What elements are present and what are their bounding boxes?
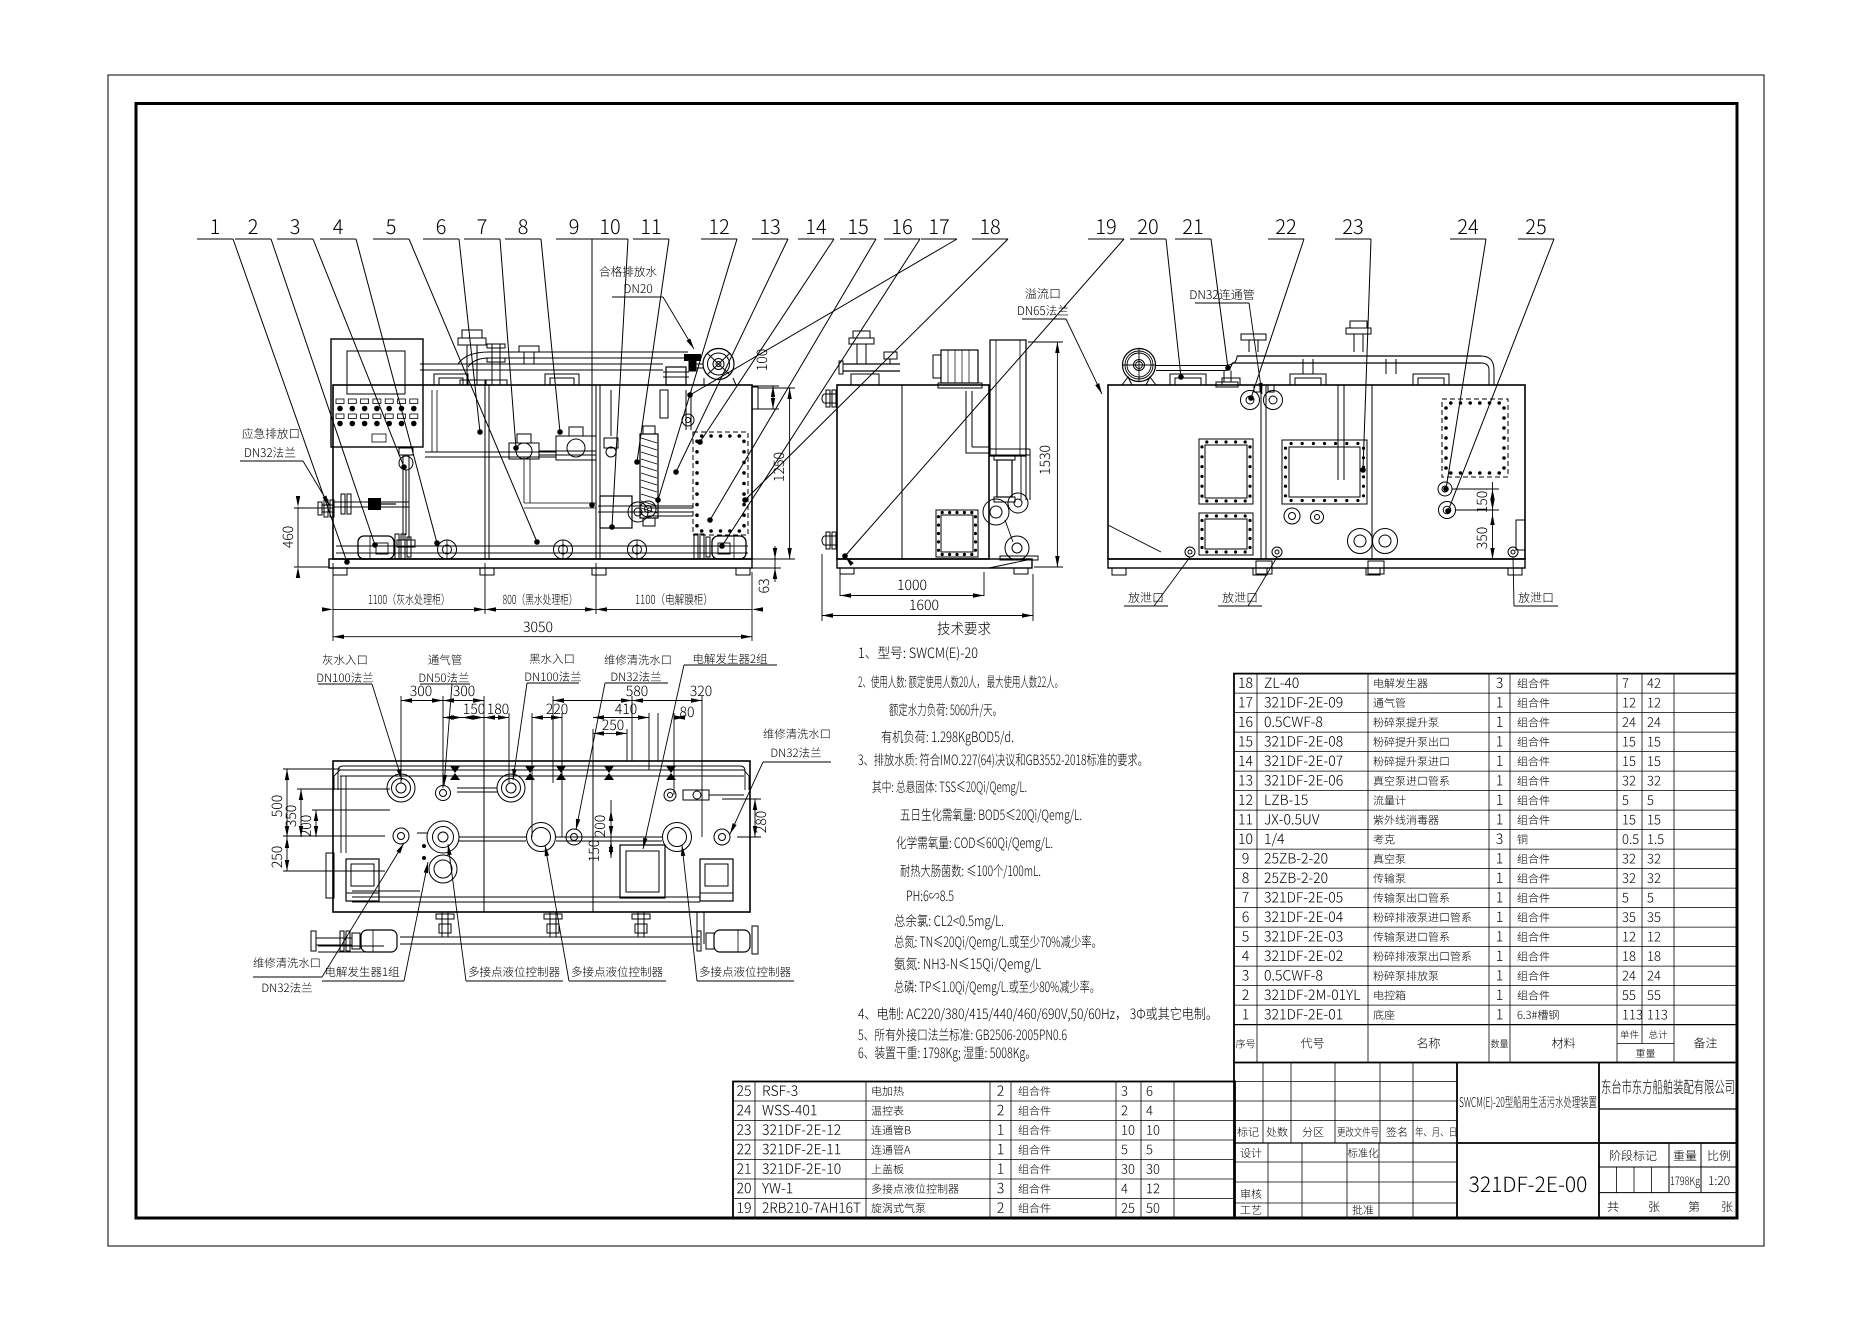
JX UV filter	[997, 460, 1012, 497]
rear top piping	[1156, 365, 1225, 367]
plan flanges row1	[387, 774, 415, 802]
plan labels bottom	[254, 957, 320, 967]
mid horizontal pipe left	[425, 451, 556, 453]
dosing pump mid-right	[600, 496, 632, 528]
mid connecting pipes plan	[417, 832, 427, 834]
misc fittings front	[604, 438, 618, 448]
top wall flanges pair	[1241, 391, 1260, 410]
manhole rear 3	[1282, 440, 1367, 504]
dim 150/350 rear	[1492, 482, 1494, 559]
mid cabinet drop pipe	[523, 457, 525, 503]
callout 17	[930, 219, 949, 234]
label DN32 connecting pipe	[1191, 289, 1254, 300]
rear small circles	[1284, 508, 1300, 524]
plan left pump	[346, 859, 379, 901]
base frame	[329, 559, 752, 568]
callout 19	[1097, 219, 1115, 234]
dim 1530	[1056, 342, 1058, 567]
title block	[1233, 1063, 1235, 1219]
rear pedestals	[1170, 374, 1206, 385]
control panel	[331, 339, 423, 447]
label: emergency outlet DN32	[242, 428, 298, 439]
tank body rear	[1108, 385, 1525, 559]
callout 12	[710, 219, 729, 234]
internal discharge pipe	[965, 391, 967, 447]
plan solid valves on pipe	[450, 766, 460, 780]
right fittings plan	[683, 790, 709, 800]
external piping right	[989, 448, 1030, 450]
dim 1000	[839, 572, 841, 596]
level gauge column	[402, 455, 404, 540]
label: qualified discharge DN20	[600, 266, 657, 277]
plan right pump	[700, 859, 733, 901]
valve cluster grey-water	[509, 443, 539, 459]
callout 3	[290, 219, 299, 234]
callout 6	[437, 219, 446, 234]
callout 14	[807, 219, 826, 234]
mid horizontal pipe right cabinet	[598, 505, 693, 507]
top pipe left	[843, 363, 900, 365]
flange stub right wall	[752, 387, 758, 409]
drawing number	[1469, 1176, 1586, 1192]
plan bottom external pipe	[400, 936, 700, 938]
bottom dim row: cabinet widths	[332, 563, 334, 641]
left flange ports	[824, 393, 837, 395]
signature area	[1234, 1161, 1457, 1163]
callout 23	[1343, 219, 1362, 234]
bottom pump right	[712, 536, 746, 559]
rear risers at pedestals	[1302, 359, 1304, 374]
pump circles side	[983, 499, 1009, 525]
main tank body (3 cabinets)	[333, 385, 752, 559]
overflow tall box	[990, 340, 1026, 456]
callout 13	[761, 219, 779, 234]
callout 10	[601, 219, 620, 234]
plan left dims	[286, 769, 288, 871]
emergency pipe run inside	[333, 501, 409, 503]
emergency discharge port DN32	[322, 504, 333, 506]
dim 1600	[821, 554, 823, 621]
right wall lug	[1516, 520, 1525, 550]
callout 18	[981, 219, 1000, 234]
BOM table left (items 19-25)	[733, 1082, 1235, 1219]
callout 9	[570, 219, 579, 234]
plan right dim 280	[754, 799, 756, 837]
stage/weight/scale	[1599, 1166, 1737, 1168]
manhole rear 1	[1199, 439, 1253, 504]
left cabinet riser pipes	[431, 390, 433, 452]
dim 1250 right	[789, 388, 791, 559]
callout 2	[249, 219, 258, 234]
UV filter column	[640, 434, 658, 518]
callout 4	[333, 219, 343, 234]
callout 15	[849, 219, 868, 234]
company box	[1598, 1063, 1600, 1219]
PLAN VIEW (bottom left)	[333, 761, 750, 912]
plan mid row circles	[427, 821, 459, 853]
rear motor (vacuum pump, end view)	[1123, 349, 1156, 382]
dim 63 bottom right	[774, 546, 776, 582]
callout 11	[642, 219, 660, 234]
manhole rear 2	[1199, 513, 1253, 555]
base side	[837, 559, 1032, 568]
electrolysis membrane tank (dotted)	[693, 432, 748, 535]
callout 16	[893, 219, 912, 234]
inner border frame	[136, 104, 1737, 1219]
base rear	[1108, 559, 1525, 568]
plan bottom-right pump set	[714, 930, 750, 952]
plan label right	[764, 728, 830, 738]
plan bottom-left pump set	[361, 930, 397, 952]
BOM table right (items 1-18)	[1234, 674, 1737, 1063]
outer border frame	[108, 75, 1764, 1246]
dim 100 right top	[772, 386, 774, 409]
dim 460 left	[297, 507, 299, 567]
plan left inner pipe	[340, 776, 342, 853]
vertical pipe at electro cabinet	[685, 390, 687, 430]
product title box	[1456, 1063, 1458, 1219]
plan labels top	[323, 654, 367, 664]
callout 20	[1138, 219, 1158, 234]
callout 25	[1526, 219, 1546, 234]
callout 22	[1276, 219, 1296, 234]
drain labels rear	[1128, 592, 1162, 603]
discharge filter column above tank	[666, 367, 686, 385]
plan inner rim	[338, 766, 745, 790]
plan inner dims 200/150	[610, 800, 612, 858]
plan top dims	[400, 696, 402, 783]
revision area	[1234, 1081, 1457, 1083]
manhole side	[936, 510, 978, 557]
electro tank rear (dotted)	[1442, 399, 1508, 477]
valve cluster black-water	[556, 436, 596, 460]
electro tank plan	[620, 845, 665, 898]
blower on discharge	[703, 349, 734, 380]
plan top internal pipe	[340, 769, 744, 771]
bottom transfer pump left	[358, 536, 394, 559]
callout 8	[519, 219, 528, 234]
plan inner bottom pipe	[352, 896, 700, 898]
tank body side	[837, 385, 989, 559]
discharge valve T-handle	[684, 354, 701, 361]
callout 24	[1458, 219, 1478, 234]
label overflow DN65	[1026, 288, 1060, 299]
technical requirements text	[938, 621, 991, 635]
motor on top	[941, 350, 978, 383]
rear riser flanges	[1248, 340, 1250, 352]
plan bottom mid pipe	[318, 945, 384, 947]
callout 21	[1183, 219, 1202, 234]
callout 7	[478, 219, 487, 234]
vertical pipe rear	[1337, 385, 1339, 480]
dim 3050	[333, 636, 752, 638]
T-risers with valves	[441, 912, 443, 937]
bottom pipe run	[336, 545, 748, 547]
callout 5	[386, 219, 395, 234]
plan left side stub	[326, 853, 334, 898]
top piping (front)	[420, 363, 663, 365]
callout 1	[212, 219, 220, 234]
